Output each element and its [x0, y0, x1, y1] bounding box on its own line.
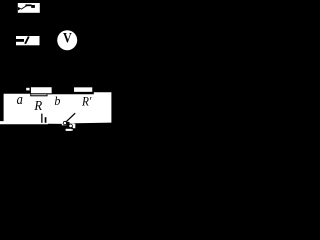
svg-text:R′: R′ [81, 93, 91, 108]
switch contact circle [69, 124, 73, 128]
wire fragment below switch [66, 129, 72, 131]
svg-text:R: R [33, 99, 42, 114]
resistor R' box [74, 87, 93, 93]
white pocket around pivot [62, 122, 67, 126]
switch fixed contact wire [25, 4, 31, 6]
resistor R box [30, 87, 52, 97]
battery short electrode [45, 117, 47, 123]
switch lever [66, 113, 76, 122]
voltmeter V [57, 30, 77, 50]
switch S (top-left tile) [18, 3, 40, 13]
contact halo [71, 124, 75, 129]
switch pivot circle [63, 121, 66, 124]
rheostat tile [16, 36, 40, 45]
box edge line under R [30, 95, 47, 96]
switch lever [21, 5, 27, 9]
slash [25, 37, 29, 44]
main box interior (white blob) [0, 92, 111, 124]
switch pivot dot [18, 7, 22, 11]
svg-text:b: b [54, 93, 60, 108]
wire stub left of R [26, 88, 29, 91]
svg-text:V: V [63, 31, 72, 47]
svg-text:a: a [17, 92, 23, 108]
black notch between switch circles [66, 122, 69, 127]
wire stub [16, 39, 24, 42]
battery long electrode [41, 114, 42, 123]
